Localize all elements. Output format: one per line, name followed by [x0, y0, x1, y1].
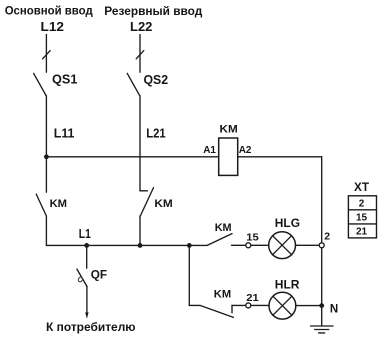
svg-text:L12: L12	[41, 19, 65, 34]
terminal 21	[246, 303, 251, 308]
svg-text:L11: L11	[54, 126, 75, 140]
contact KM HLG (NO) blade	[207, 234, 232, 246]
wire QF lower	[86, 287, 88, 314]
svg-text:2: 2	[324, 231, 330, 243]
svg-text:2: 2	[359, 199, 365, 210]
contact KM main label	[50, 198, 67, 210]
label to consumer	[46, 322, 136, 334]
terminal block row 2	[359, 199, 365, 210]
arrow to consumer	[85, 312, 88, 318]
wire terminal 15 to HLG	[251, 244, 268, 246]
contact KM HLR (NC) tick	[231, 305, 233, 312]
wire to terminal 15	[232, 244, 246, 246]
svg-text:QF: QF	[91, 269, 107, 281]
terminal block XT label	[354, 182, 369, 194]
label main input	[5, 5, 94, 18]
svg-text:L22: L22	[130, 19, 152, 34]
svg-text:XT: XT	[354, 182, 369, 194]
junction QF	[84, 243, 89, 248]
wire to terminal 21	[232, 304, 245, 306]
break slash main input	[43, 51, 51, 59]
svg-text:QS1: QS1	[52, 71, 77, 86]
contactor contact KM (reserve, NC) tick	[140, 190, 147, 192]
node N junction	[319, 303, 324, 308]
svg-text:HLG: HLG	[275, 216, 300, 230]
svg-text:KM: KM	[214, 288, 231, 300]
svg-text:KM: KM	[215, 222, 232, 234]
breaker QF blade	[77, 269, 87, 287]
switch QS2 label	[144, 72, 169, 87]
wire terminal 21 to HLR	[251, 304, 269, 306]
wire lamp branch vertical	[188, 245, 190, 305]
svg-text:21: 21	[356, 226, 368, 237]
breaker QF label	[91, 269, 107, 281]
contactor contact KM (reserve, NC) blade	[140, 188, 153, 216]
wire to L1 bus	[139, 216, 141, 245]
node N label	[330, 304, 338, 316]
node L12 label	[41, 19, 65, 34]
terminal 2	[319, 243, 324, 248]
lamp HLG label	[275, 216, 300, 230]
svg-text:Основной ввод: Основной ввод	[5, 5, 94, 18]
lamp HLG	[269, 232, 296, 259]
node L1 label	[79, 227, 91, 241]
break slash reserve input	[136, 51, 144, 59]
svg-text:KM: KM	[50, 198, 67, 210]
svg-text:L21: L21	[146, 126, 165, 140]
pin A1	[203, 145, 216, 156]
lamp HLR	[269, 292, 296, 319]
contactor contact KM (main, NO) blade	[36, 194, 46, 216]
wire main input drop	[45, 35, 47, 73]
lamp HLR label	[275, 278, 300, 292]
wire QF upper	[86, 245, 88, 268]
contact KM HLR label	[214, 288, 231, 300]
wire HLR to node N	[296, 305, 322, 307]
label reserve input	[104, 5, 203, 18]
junction lamp branch	[187, 243, 192, 248]
contact KM reserve label	[154, 198, 172, 210]
terminal block XT	[348, 196, 376, 238]
terminal block row 21	[356, 226, 368, 237]
node L21 label	[146, 126, 165, 140]
junction L11 bus	[44, 154, 49, 159]
coil KM label	[220, 124, 238, 136]
svg-text:15: 15	[246, 231, 259, 243]
contact KM HLG label	[215, 222, 232, 234]
coil KM	[219, 138, 238, 175]
terminal 15	[246, 243, 251, 248]
pin A2	[239, 145, 252, 156]
svg-text:N: N	[330, 304, 338, 316]
svg-text:QS2: QS2	[144, 72, 169, 87]
contact KM HLR (NC) blade	[200, 305, 233, 317]
svg-text:KM: KM	[220, 124, 238, 136]
wire to KM HLR contact	[189, 304, 200, 306]
svg-text:A1: A1	[203, 145, 216, 156]
wire right rail upper	[321, 157, 323, 242]
svg-text:15: 15	[356, 213, 368, 224]
terminal 21 label	[246, 292, 259, 304]
junction L1/reserve	[138, 243, 143, 248]
wire to L1 bus	[45, 216, 47, 245]
terminal 15 label	[246, 231, 259, 243]
wire L11 segment	[45, 96, 47, 157]
node L11 label	[54, 126, 75, 140]
wire right rail lower	[321, 248, 323, 305]
svg-text:21: 21	[246, 292, 259, 304]
switch QS1 label	[52, 71, 77, 86]
wire reserve input drop	[139, 35, 141, 73]
wire L21 segment	[139, 96, 141, 191]
svg-text:К потребителю: К потребителю	[46, 322, 136, 334]
wire A2 to right rail	[238, 156, 322, 158]
wire HLG to terminal 2	[296, 244, 319, 246]
svg-text:L1: L1	[79, 227, 91, 241]
svg-text:HLR: HLR	[275, 278, 300, 292]
svg-text:Резервный ввод: Резервный ввод	[104, 5, 203, 18]
switch QS1 blade	[34, 73, 47, 96]
svg-text:A2: A2	[239, 145, 252, 156]
terminal 2 label	[324, 231, 330, 243]
breaker QF marker	[77, 276, 83, 282]
wire L1 bus	[46, 244, 207, 246]
svg-text:KM: KM	[154, 198, 172, 210]
ground	[321, 306, 323, 326]
node L22 label	[130, 19, 152, 34]
wire L11 bus	[46, 156, 218, 158]
wire below junction	[45, 157, 47, 192]
terminal block row 15	[356, 213, 368, 224]
switch QS2 blade	[127, 73, 140, 96]
